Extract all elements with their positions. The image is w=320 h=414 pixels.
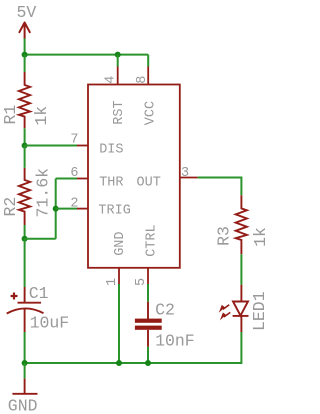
svg-text:8: 8	[135, 76, 150, 84]
wire DIS	[25, 145, 77, 147]
capacitor C1	[7, 287, 44, 332]
pin stub 4	[117, 67, 119, 85]
svg-text:R2: R2	[1, 197, 20, 217]
LED arrow 2	[220, 312, 230, 320]
wire THR/TRIG vertical	[55, 179, 57, 239]
svg-text:GND: GND	[8, 396, 38, 414]
pin stub 3 OUT	[180, 177, 198, 179]
wire top rail	[25, 54, 149, 56]
junction top-left	[22, 52, 28, 58]
wire pin5 to C2	[147, 284, 149, 302]
svg-text:1k: 1k	[32, 106, 51, 126]
pin stub 6 THR	[77, 178, 88, 180]
C1 plus sign	[11, 293, 18, 300]
wire drop to pin 8	[147, 55, 149, 67]
wire DIS junction to R2	[24, 146, 26, 168]
wire R2 junction to C1	[24, 239, 26, 287]
svg-text:1k: 1k	[251, 227, 269, 247]
junction C2 bottom	[145, 360, 151, 366]
svg-text:CTRL: CTRL	[145, 224, 160, 256]
svg-text:5V: 5V	[17, 3, 37, 22]
svg-text:10nF: 10nF	[155, 332, 195, 351]
wire C2 to bottom rail	[147, 347, 149, 363]
svg-text:RST: RST	[112, 100, 127, 124]
wire top rail to R1	[24, 55, 26, 72]
wire OUT to right rail	[198, 178, 242, 196]
svg-text:R3: R3	[215, 226, 234, 246]
svg-text:THR: THR	[99, 175, 123, 190]
supply symbol 5V arrow	[19, 23, 29, 39]
ground symbol	[12, 379, 37, 394]
junction TRIG	[53, 206, 59, 212]
pin stub 8	[147, 67, 149, 85]
svg-text:GND: GND	[113, 231, 128, 255]
resistor R3	[236, 195, 247, 254]
junction pin1 bottom	[116, 360, 122, 366]
wire TRIG	[56, 208, 77, 210]
svg-text:1: 1	[105, 278, 120, 286]
wire R1 to DIS junction	[24, 128, 26, 145]
wire LED to bottom rail	[25, 332, 242, 363]
LED arrow 1	[219, 305, 229, 313]
pin stub 2 TRIG	[77, 208, 88, 210]
svg-text:2: 2	[70, 196, 78, 211]
wire drop to pin 4	[117, 55, 119, 67]
svg-text:4: 4	[103, 76, 118, 84]
svg-text:7: 7	[70, 133, 78, 148]
wire C1 to ground junction	[24, 332, 26, 363]
wire THR	[56, 178, 77, 180]
svg-text:R1: R1	[1, 105, 20, 125]
LED LED1	[233, 285, 249, 332]
junction R2 bottom	[22, 236, 28, 242]
junction pin4 drop	[115, 52, 121, 58]
wire ground node down	[24, 363, 26, 379]
svg-text:C1: C1	[29, 284, 49, 303]
junction ground node	[22, 360, 28, 366]
op-amp U1 555 body	[88, 85, 180, 268]
svg-text:3: 3	[181, 166, 189, 181]
wire THR/TRIG branch horizontal bottom	[25, 238, 56, 240]
svg-text:C2: C2	[155, 300, 175, 319]
wire pin1 to bottom rail	[118, 284, 120, 363]
svg-text:OUT: OUT	[137, 175, 161, 190]
wire 5V arrow to top rail	[24, 38, 26, 54]
svg-text:LED1: LED1	[250, 291, 269, 331]
resistor R1	[19, 72, 30, 128]
pin stub 5 CTRL	[147, 268, 149, 284]
svg-text:DIS: DIS	[99, 142, 123, 157]
svg-text:VCC: VCC	[144, 101, 159, 125]
resistor R2	[19, 168, 30, 225]
pin stub 1 GND	[118, 268, 120, 284]
wire R2 to bottom junction	[24, 225, 26, 239]
svg-text:6: 6	[70, 166, 78, 181]
pin stub 7 DIS	[77, 145, 88, 147]
wire R3 to LED	[240, 254, 242, 284]
junction DIS node	[22, 143, 28, 149]
svg-text:10uF: 10uF	[30, 313, 70, 332]
capacitor C2	[135, 302, 162, 347]
svg-text:71.6k: 71.6k	[34, 168, 53, 218]
svg-text:TRIG: TRIG	[98, 204, 130, 219]
svg-text:5: 5	[134, 278, 149, 286]
